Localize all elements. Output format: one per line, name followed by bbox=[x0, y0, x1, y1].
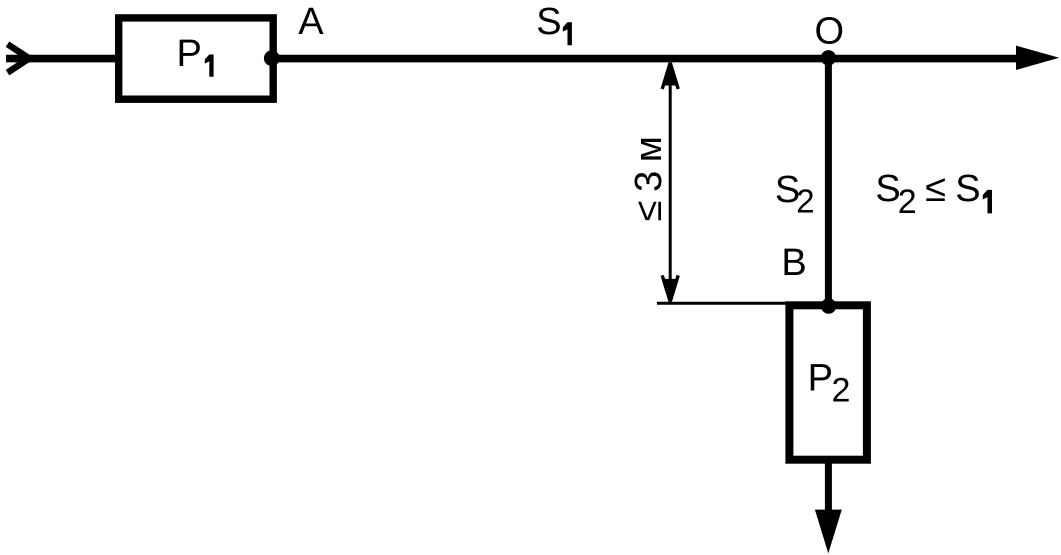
node O dot bbox=[821, 50, 836, 65]
wire incoming left segment bbox=[6, 55, 119, 63]
node A dot bbox=[264, 50, 280, 66]
svg-text:O: O bbox=[815, 11, 845, 53]
bottom arrow bbox=[815, 510, 842, 554]
svg-text:A: A bbox=[298, 1, 324, 43]
svg-text:P: P bbox=[177, 33, 202, 75]
dimension arrowhead up bbox=[662, 63, 670, 89]
load P2 box bbox=[789, 305, 867, 459]
dimension extension line bbox=[657, 302, 793, 305]
wire to load bottom bbox=[825, 460, 832, 512]
svg-text:2: 2 bbox=[796, 182, 814, 219]
supply arrow chevron upper stroke bbox=[8, 44, 30, 58]
device P1 box bbox=[119, 18, 274, 99]
svg-text:≤: ≤ bbox=[925, 168, 946, 210]
node B dot bbox=[821, 298, 836, 313]
svg-text:P: P bbox=[808, 357, 833, 399]
svg-text:S: S bbox=[955, 168, 980, 210]
svg-text:B: B bbox=[781, 242, 806, 284]
svg-text:≤ 3 м: ≤ 3 м bbox=[628, 137, 670, 221]
supply arrow chevron lower stroke bbox=[8, 58, 30, 72]
dimension line vertical bbox=[669, 64, 672, 300]
wire S2 vertical bbox=[825, 58, 832, 306]
svg-text:S: S bbox=[536, 1, 561, 43]
svg-text:2: 2 bbox=[832, 372, 851, 410]
right arrow bbox=[1016, 46, 1059, 70]
dimension arrowhead down bbox=[662, 275, 670, 301]
wire S1 horizontal bbox=[273, 55, 1020, 63]
svg-text:2: 2 bbox=[898, 183, 917, 221]
